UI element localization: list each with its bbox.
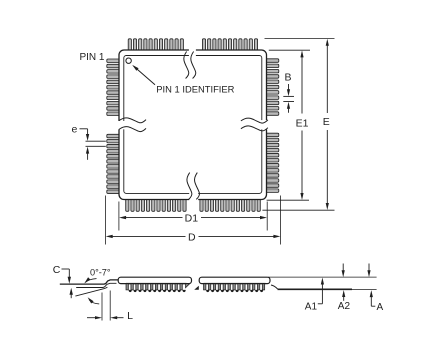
extension lines for D and D1 bbox=[106, 196, 281, 245]
top view: lower-right pin row bbox=[200, 199, 260, 212]
angle label 0-7 degrees with leader bbox=[84, 267, 111, 283]
svg-text:B: B bbox=[284, 72, 291, 84]
svg-text:A2: A2 bbox=[338, 301, 351, 312]
side view: section 1 end lead wedge bbox=[186, 284, 190, 288]
svg-text:PIN 1: PIN 1 bbox=[79, 52, 104, 63]
break gap patches bbox=[116, 47, 269, 203]
dimension C (lead thickness) bbox=[53, 264, 73, 298]
break marks right edge bbox=[241, 118, 268, 131]
PIN 1 IDENTIFIER label with leader arrow bbox=[132, 65, 234, 95]
leader arrow to angle datum bbox=[88, 297, 100, 304]
side view: section 2 first lead wedge bbox=[194, 286, 199, 290]
dimension E1 (body height) bbox=[296, 50, 309, 200]
pin 1 identifier circle bbox=[126, 58, 131, 63]
side view: left lead foot (bottom line) bbox=[76, 283, 116, 287]
svg-text:D: D bbox=[188, 231, 196, 243]
break marks top edge bbox=[184, 52, 196, 79]
svg-text:E: E bbox=[323, 116, 330, 128]
top view: upper-right pin row bbox=[202, 39, 257, 51]
svg-text:E1: E1 bbox=[296, 118, 309, 130]
break marks bottom edge bbox=[187, 173, 200, 200]
svg-text:PIN 1 IDENTIFIER: PIN 1 IDENTIFIER bbox=[156, 84, 234, 95]
dimension B (lead width) bbox=[283, 72, 294, 113]
svg-text:L: L bbox=[127, 310, 133, 322]
svg-text:D1: D1 bbox=[185, 213, 199, 225]
top view: lower-left pin row bbox=[126, 199, 186, 212]
top view: right lower pin column bbox=[266, 133, 279, 192]
side view: body section 1 bbox=[118, 277, 191, 283]
svg-text:e: e bbox=[71, 123, 77, 135]
dimension D1 (body width) bbox=[119, 213, 267, 225]
package body outline (outer) bbox=[119, 50, 267, 200]
svg-text:0°-7°: 0°-7° bbox=[90, 267, 111, 277]
package body outline (inner) bbox=[124, 56, 262, 194]
dimension A2 (body thickness) bbox=[338, 264, 351, 313]
top view: upper-left pin row bbox=[128, 39, 183, 51]
top view: left lower pin column bbox=[107, 134, 120, 193]
side view: left lead foot (top line) bbox=[60, 280, 119, 284]
side view: 0-7 degree datum line bbox=[75, 287, 107, 296]
side view: leads under section 2 bbox=[204, 283, 266, 292]
dimension A (overall height) bbox=[367, 264, 383, 313]
dimension A1 (standoff) bbox=[305, 278, 324, 313]
top view: left upper pin column bbox=[107, 59, 120, 116]
svg-text:A: A bbox=[376, 302, 383, 313]
svg-text:C: C bbox=[53, 264, 61, 276]
dimension L (foot length) bbox=[87, 291, 133, 323]
side view: top reference line bbox=[268, 276, 377, 278]
break marks left edge bbox=[119, 118, 146, 132]
dimension D (overall width) bbox=[106, 231, 281, 243]
dimension e (lead pitch) bbox=[71, 123, 105, 160]
side view: body section 2 bbox=[199, 277, 270, 283]
side view: leads under section 1 bbox=[126, 283, 187, 292]
side view: last lead foot and seating plane bbox=[271, 285, 377, 290]
top view: right upper pin column bbox=[266, 59, 279, 116]
extension lines for E and E1 bbox=[262, 39, 334, 211]
svg-text:A1: A1 bbox=[305, 301, 318, 312]
dimension E (overall span) bbox=[323, 39, 330, 210]
